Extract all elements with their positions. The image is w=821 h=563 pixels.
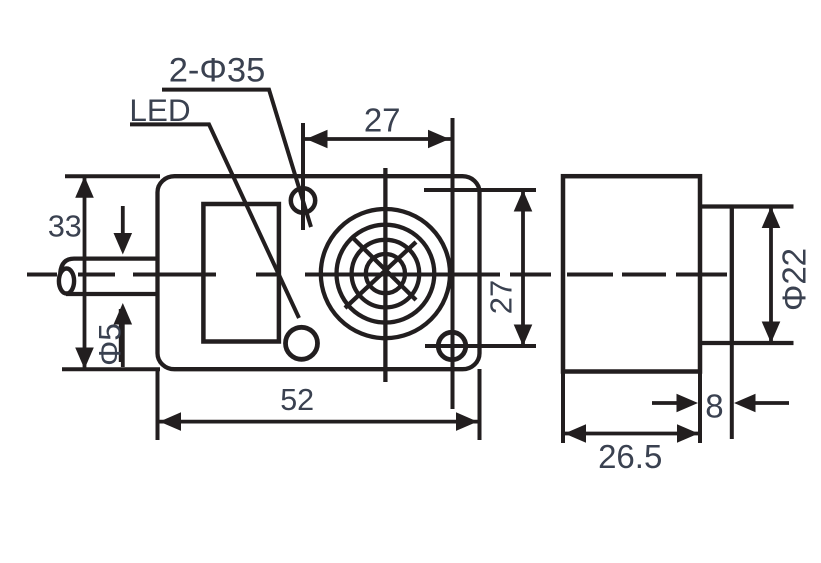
svg-text:8: 8 xyxy=(705,388,723,425)
svg-text:33: 33 xyxy=(48,209,82,243)
svg-text:26.5: 26.5 xyxy=(598,438,662,475)
svg-text:27: 27 xyxy=(484,280,519,314)
svg-text:52: 52 xyxy=(280,383,314,417)
svg-text:2-Φ35: 2-Φ35 xyxy=(169,52,266,90)
svg-text:LED: LED xyxy=(129,92,190,128)
svg-text:Φ5: Φ5 xyxy=(92,323,128,366)
svg-text:Φ22: Φ22 xyxy=(776,248,813,311)
svg-text:27: 27 xyxy=(364,102,401,139)
